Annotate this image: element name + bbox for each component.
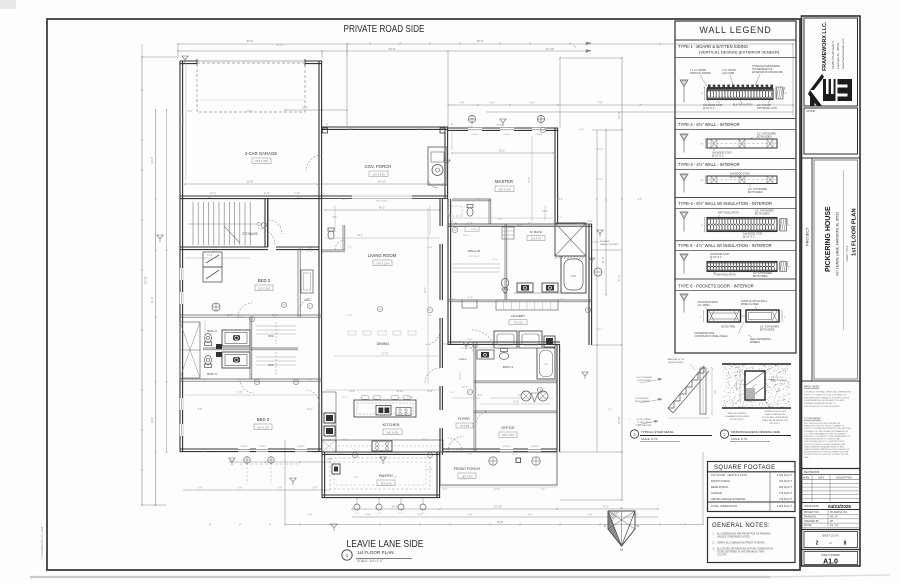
svg-text:BOTH SIDES: BOTH SIDES [760,329,775,332]
svg-text:SHOWER: SHOWER [600,241,610,243]
svg-text:ARCH. NOTE:: ARCH. NOTE: [804,386,820,389]
svg-text:W: W [637,524,640,528]
svg-text:30'-8": 30'-8" [150,157,154,164]
svg-text:34'-6": 34'-6" [388,47,395,51]
svg-text:16'-10": 16'-10" [597,179,604,181]
svg-text:ABOVE NOSING: ABOVE NOSING [668,361,684,364]
svg-text:GENERAL NOTES:: GENERAL NOTES: [712,523,770,529]
svg-text:10'-0": 10'-0" [427,247,433,249]
svg-text:11'-7": 11'-7" [257,199,263,201]
svg-text:A1.0: A1.0 [823,559,838,566]
svg-text:DEALS HEREBY RETAINED RIGHTS,: DEALS HEREBY RETAINED RIGHTS, ANY [804,445,845,448]
svg-text:7'-7": 7'-7" [348,247,353,249]
svg-text:SCREEN: SCREEN [258,446,266,448]
svg-text:1.: 1. [713,533,715,536]
svg-text:ABOVE GARAGE STORAGE: ABOVE GARAGE STORAGE [711,497,745,501]
svg-text:12'6 X 13'0: 12'6 X 13'0 [257,426,270,429]
svg-text:14'-0": 14'-0" [327,459,333,461]
svg-text:EGRESS: EGRESS [531,446,539,448]
svg-text:20'-10": 20'-10" [276,45,283,47]
svg-text:DRAWN BY: DRAWN BY [804,516,817,519]
svg-text:18'-4": 18'-4" [307,451,313,453]
svg-text:4'-6": 4'-6" [541,489,546,491]
svg-text:19'-1": 19'-1" [357,235,363,237]
svg-text:EGRESS: EGRESS [471,134,479,136]
svg-text:6'-8": 6'-8" [203,379,208,381]
svg-text:HANDRAIL 34"-38": HANDRAIL 34"-38" [667,358,684,361]
svg-text:3'-3": 3'-3" [273,317,278,319]
svg-text:2: 2 [724,433,726,437]
svg-text:TYPE-3 - 4½" WALL - INTERIOR: TYPE-3 - 4½" WALL - INTERIOR [678,162,740,167]
svg-text:BED 2: BED 2 [258,278,271,283]
svg-text:PANTRY: PANTRY [379,474,394,478]
svg-text:34'-6": 34'-6" [246,39,253,43]
svg-text:@ 16" O.C.: @ 16" O.C. [710,256,723,259]
svg-text:CONSENT OF THE OWNER OF FRAMEW: CONSENT OF THE OWNER OF FRAMEWORX [804,430,849,433]
svg-text:DIMENSIONS ARE BROUGHT TO: DIMENSIONS ARE BROUGHT TO [804,402,836,405]
svg-text:PICKERING 001: PICKERING 001 [830,512,848,514]
svg-text:20'-0": 20'-0" [227,315,233,317]
svg-text:211 SQ.F.T: 211 SQ.F.T [779,479,792,483]
svg-text:3'-8": 3'-8" [238,392,243,394]
svg-text:Fairhope AL, 36532: Fairhope AL, 36532 [836,42,840,69]
svg-text:3.: 3. [713,548,715,551]
svg-text:9'-1": 9'-1" [333,217,338,219]
svg-text:36'-2": 36'-2" [379,206,386,210]
svg-text:NON-EXCLUSIVE LICENSE GRANTED,: NON-EXCLUSIVE LICENSE GRANTED, AND [804,443,846,446]
svg-text:15'-7": 15'-7" [450,392,456,394]
svg-text:2-CAR GARAGE: 2-CAR GARAGE [245,151,278,156]
svg-text:12'-10": 12'-10" [617,416,621,424]
svg-text:2: 2 [816,541,819,547]
svg-text:ALL DOORS OR WINDOWS WITHOUT D: ALL DOORS OR WINDOWS WITHOUT DIMENSIONS [717,548,773,551]
svg-text:8'-5": 8'-5" [298,249,303,251]
svg-text:16'-6": 16'-6" [463,235,469,237]
svg-text:22'-10": 22'-10" [448,299,455,301]
svg-text:BATT INSULATION: BATT INSULATION [718,212,739,215]
svg-text:OR ALTERATION DISCREPANCY UNLE: OR ALTERATION DISCREPANCY UNLESS [804,399,845,402]
svg-text:SHALL BE INSTALLED PER: SHALL BE INSTALLED PER [762,419,788,422]
svg-text:23'-4": 23'-4" [424,287,427,293]
svg-text:779 SQ.F.T: 779 SQ.F.T [779,497,793,501]
svg-text:8'-10": 8'-10" [427,469,433,471]
svg-text:18'-0": 18'-0" [542,392,548,394]
svg-text:15'6 X 16'0: 15'6 X 16'0 [498,188,511,191]
svg-text:20'-8": 20'-8" [247,180,254,184]
svg-text:SCREEN: SCREEN [297,446,305,448]
svg-text:VERTICAL BOARD: VERTICAL BOARD [690,72,711,75]
svg-text:MARK: MARK [803,476,810,479]
svg-text:6'-0": 6'-0" [308,248,313,250]
svg-text:19'-6": 19'-6" [427,391,433,393]
svg-text:BOTH SIDES: BOTH SIDES [748,191,763,194]
svg-text:4'-6": 4'-6" [366,514,371,517]
svg-text:14'6 X 16'0: 14'6 X 16'0 [386,431,399,434]
svg-text:TYPE 6 - POCKETS DOOR - INTERI: TYPE 6 - POCKETS DOOR - INTERIOR [678,284,754,289]
svg-text:FRONT PORCH: FRONT PORCH [711,479,730,483]
svg-text:24'-1": 24'-1" [307,409,313,411]
svg-text:11'6 X 13'0: 11'6 X 13'0 [258,287,271,290]
svg-text:10'-8": 10'-8" [467,297,473,299]
svg-text:7'-6": 7'-6" [529,101,534,105]
svg-text:MINIMUM EGRESS OPENING SIZE: MINIMUM EGRESS OPENING SIZE [731,430,780,434]
svg-text:1ST FLOOR - HEAT'D & COOL: 1ST FLOOR - HEAT'D & COOL [711,473,748,477]
svg-text:9'-1": 9'-1" [243,379,248,381]
svg-text:21'-9": 21'-9" [347,315,353,317]
svg-text:2'-0": 2'-0" [354,477,359,479]
svg-text:4'-6": 4'-6" [443,489,448,491]
svg-text:16'-0": 16'-0" [528,177,531,183]
svg-text:4'-2": 4'-2" [428,315,433,317]
svg-text:PROJECT NO.: PROJECT NO. [804,512,820,514]
svg-text:AS - 1/4: AS - 1/4 [830,524,839,527]
svg-text:779 SQ.F.T: 779 SQ.F.T [779,491,793,495]
svg-text:© COPYRIGHT:: © COPYRIGHT: [804,418,821,421]
svg-text:EGRESS: EGRESS [503,134,511,136]
svg-text:7'-10": 7'-10" [294,192,300,195]
svg-text:TUB: TUB [571,275,576,278]
svg-text:UNAUTHORIZED REPRODUCTION, REU: UNAUTHORIZED REPRODUCTION, REUSE OR [804,448,850,451]
svg-text:PRIVATE ROAD SIDE: PRIVATE ROAD SIDE [344,24,425,35]
svg-text:11'-8": 11'-8" [297,197,303,199]
svg-text:7'-6": 7'-6" [489,101,494,105]
svg-text:12'-2": 12'-2" [407,397,413,399]
svg-text:8'-2": 8'-2" [343,199,348,201]
svg-text:CLEARANCES REQUIRED: CLEARANCES REQUIRED [725,415,750,418]
svg-text:BATH 2: BATH 2 [207,329,217,333]
svg-text:TYPE-2 - 6½" WALL - INTERIOR: TYPE-2 - 6½" WALL - INTERIOR [678,122,740,127]
svg-text:THAN 24" ABOVE FIN.: THAN 24" ABOVE FIN. [765,413,786,416]
svg-text:ASSUMES RESPONSIBILITY FOR ANY: ASSUMES RESPONSIBILITY FOR ANY WORKS [804,396,850,399]
svg-text:OFFICE: OFFICE [501,426,515,430]
svg-text:7'6 X 9'2: 7'6 X 9'2 [513,322,523,325]
svg-text:GARAGE: GARAGE [711,491,722,495]
svg-text:E: E [604,524,606,528]
svg-text:17'-1": 17'-1" [460,479,466,481]
svg-text:@ 16" O.C.: @ 16" O.C. [712,155,725,158]
svg-text:11'-3": 11'-3" [467,454,473,456]
svg-text:TUB: TUB [544,364,549,366]
svg-text:OCCUPY.: OCCUPY. [717,555,728,557]
svg-text:13'-4": 13'-4" [150,417,154,424]
svg-text:5'-8": 5'-8" [198,409,203,411]
svg-text:10'-4": 10'-4" [494,489,500,491]
svg-text:5'-6": 5'-6" [238,487,243,490]
svg-text:17'-10": 17'-10" [496,125,503,127]
svg-text:19'-6": 19'-6" [542,211,548,213]
svg-text:11" MIN DEPTH: 11" MIN DEPTH [637,422,652,424]
svg-text:3'-11": 3'-11" [422,439,428,441]
svg-text:COV. PORCH: COV. PORCH [365,164,392,169]
svg-text:7'-6": 7'-6" [597,101,602,105]
svg-text:IF WINDOW SILL LESS: IF WINDOW SILL LESS [764,411,786,413]
svg-text:FRONT PORCH: FRONT PORCH [454,467,481,471]
svg-text:M. BATH: M. BATH [530,230,542,234]
svg-text:13'-1": 13'-1" [492,259,498,261]
svg-text:13'-4": 13'-4" [467,223,473,225]
svg-text:SHEET NUMBER: SHEET NUMBER [821,554,840,557]
svg-text:4'-6": 4'-6" [528,514,533,517]
svg-text:EGRESS: EGRESS [535,134,543,136]
svg-text:SCALE: N.T.S.: SCALE: N.T.S. [731,437,748,441]
svg-text:REAR PORCH: REAR PORCH [711,485,728,489]
svg-text:9'-2": 9'-2" [528,223,533,225]
svg-text:@ 16" O.C.: @ 16" O.C. [743,236,756,239]
svg-text:11'6 X 23'4: 11'6 X 23'4 [372,173,385,176]
svg-text:EGRESS: EGRESS [503,446,511,448]
svg-text:SHEET COUNT: SHEET COUNT [822,535,840,538]
svg-text:7'10" X 6'4": 7'10" X 6'4" [468,256,479,258]
svg-text:EXTERIOR PLYWOOD/OSB: EXTERIOR PLYWOOD/OSB [752,71,783,74]
svg-text:IRC R312.2: IRC R312.2 [770,423,781,425]
svg-text:6'-4": 6'-4" [331,424,336,426]
svg-text:THE USE AND BUILT TO CONSTRUCT: THE USE AND BUILT TO CONSTRUCTION, [804,440,845,443]
svg-text:SCALE: 1/4"=1'-0": SCALE: 1/4"=1'-0" [357,559,383,563]
svg-text:27'-10": 27'-10" [546,47,555,51]
svg-text:ALL SIDES: ALL SIDES [698,304,710,307]
svg-text:17'-5": 17'-5" [307,251,313,253]
svg-text:12'-6": 12'-6" [307,379,313,381]
svg-text:18'0 X 8'0: 18'0 X 8'0 [462,475,474,478]
svg-text:37'-0": 37'-0" [617,275,621,282]
svg-text:MT: MT [830,521,834,523]
svg-text:BY IRC R310.1: BY IRC R310.1 [730,419,745,421]
svg-text:20'-10": 20'-10" [237,317,244,319]
svg-text:MODIFICATION OF THIS DOCUMENT: MODIFICATION OF THIS DOCUMENT WILL BE [804,451,849,454]
svg-text:TYPE-1 - BOARD & BATTEN SIDI: TYPE-1 - BOARD & BATTEN SIDING [678,44,748,49]
svg-text:MASTER: MASTER [495,179,513,184]
svg-text:LAG OVER: LAG OVER [722,72,734,75]
svg-text:REVISIONS: REVISIONS [804,470,819,474]
svg-text:(VERTICAL DESIGN) (EXTERIOR VE: (VERTICAL DESIGN) (EXTERIOR VENEER) [699,50,780,55]
svg-text:CONTRACTOR SHALL VERIFY ALL DI: CONTRACTOR SHALL VERIFY ALL DIMENSIONS [804,391,851,394]
svg-text:74'-11": 74'-11" [144,276,148,284]
svg-text:20'-9": 20'-9" [417,129,423,131]
svg-text:4'-6": 4'-6" [634,514,639,517]
svg-text:10'0 X 11'6: 10'0 X 11'6 [502,434,515,437]
svg-text:4'-6": 4'-6" [308,514,313,517]
svg-text:FLOOR, FALL PREVENTION: FLOOR, FALL PREVENTION [762,416,789,419]
svg-text:of: of [829,541,832,545]
svg-text:WIC: WIC [268,334,273,338]
svg-text:19'-2": 19'-2" [557,199,563,201]
svg-text:DESCRIPTION: DESCRIPTION [836,477,852,479]
svg-text:SHOES: SHOES [471,229,478,231]
svg-text:DATE: DATE [818,476,824,479]
svg-text:9'-9": 9'-9" [343,397,348,399]
svg-text:PICKERING HOUSE: PICKERING HOUSE [825,206,832,272]
svg-text:WALK-IN: WALK-IN [468,249,480,253]
svg-text:7'-6": 7'-6" [459,101,464,105]
svg-text:17'0 X 23'4: 17'0 X 23'4 [376,262,389,265]
svg-text:7-3/4" MAX RISE: 7-3/4" MAX RISE [636,424,652,427]
svg-text:WHEN CLOSED: WHEN CLOSED [741,303,759,306]
svg-text:FRAMEWORX LLC.: FRAMEWORX LLC. [822,21,828,71]
svg-text:FOYER: FOYER [458,417,470,421]
svg-text:WINDOW OPENING: WINDOW OPENING [728,413,747,415]
svg-text:SCREEN: SCREEN [240,446,248,448]
svg-text:1x8 RISER BD: 1x8 RISER BD [635,398,649,400]
svg-text:LLC. THE PURCHASE OF THIS DOCU: LLC. THE PURCHASE OF THIS DOCUMENT [804,432,847,435]
svg-text:19'-10": 19'-10" [494,505,503,509]
svg-text:BED 3: BED 3 [257,417,270,422]
svg-text:24'-8": 24'-8" [182,117,185,123]
svg-text:1st FLOOR PLAN: 1st FLOOR PLAN [852,208,858,256]
svg-text:STORAGE: STORAGE [242,232,258,236]
svg-text:24350 US-98 Suite 5: 24350 US-98 Suite 5 [831,41,835,69]
svg-text:www.frameworxllc.com: www.frameworxllc.com [841,38,845,69]
svg-text:2'-4": 2'-4" [558,217,563,219]
svg-text:4'-6": 4'-6" [518,395,523,397]
svg-text:20'-8": 20'-8" [391,505,398,509]
svg-text:4'-11": 4'-11" [264,192,270,195]
svg-text:24'-3": 24'-3" [577,223,583,225]
svg-text:11'8 X 3'6: 11'8 X 3'6 [460,371,462,381]
svg-text:14'-8": 14'-8" [512,454,518,456]
svg-text:LAUNDRY: LAUNDRY [511,314,525,318]
svg-text:5'-6": 5'-6" [278,487,283,490]
svg-text:LIVING ROOM: LIVING ROOM [368,253,397,258]
svg-text:04/23/2025: 04/23/2025 [828,504,851,509]
svg-text:PRIOR TO CONSTRUCTION. CONTRAC: PRIOR TO CONSTRUCTION. CONTRACTOR [804,393,847,396]
svg-text:5'-9": 5'-9" [208,197,213,199]
svg-text:5'-6": 5'-6" [313,487,318,490]
svg-text:FINISH GRADE: FINISH GRADE [635,400,650,403]
svg-text:14'-0": 14'-0" [212,251,218,253]
svg-text:21'-5": 21'-5" [467,339,473,341]
svg-text:KITCHEN: KITCHEN [383,423,400,427]
svg-text:(OPTIONAL/ GYP): (OPTIONAL/ GYP) [757,107,777,110]
svg-text:BOTH SIDES: BOTH SIDES [755,213,770,216]
svg-text:2x12 STRINGER: 2x12 STRINGER [636,377,652,379]
svg-text:44" MAX: 44" MAX [735,382,738,390]
svg-text:8'-0": 8'-0" [478,395,483,397]
svg-text:FOAM INSULATION: FOAM INSULATION [714,274,736,277]
svg-text:ALL DIMENSIONS ARE FROM FACE O: ALL DIMENSIONS ARE FROM FACE OF FRAMING [717,533,771,536]
svg-text:15'-11": 15'-11" [202,451,209,453]
svg-text:5'-9": 5'-9" [478,199,483,201]
svg-text:21'-10": 21'-10" [381,353,389,356]
svg-text:MA. JP: MA. JP [830,516,838,519]
svg-text:VERIFY ALL DIMENSIONS PRIOR TO: VERIFY ALL DIMENSIONS PRIOR TO WORK. [717,542,765,545]
svg-text:252 SQ.F.T: 252 SQ.F.T [779,485,793,489]
svg-text:MIN OPENING: MIN OPENING [771,380,785,382]
svg-text:21'-0": 21'-0" [601,257,605,264]
svg-text:CONTINUOUS STEEL ANGLE: CONTINUOUS STEEL ANGLE [695,335,728,338]
svg-text:23'-2": 23'-2" [247,111,253,113]
svg-text:2'-0": 2'-0" [355,513,359,515]
svg-text:S: S [621,506,623,510]
svg-text:19'-11": 19'-11" [517,225,524,227]
svg-text:11'6 X 9'0: 11'6 X 9'0 [531,238,542,241]
svg-text:TYPE 5 - 4½" WALL W/ INSULAT: TYPE 5 - 4½" WALL W/ INSULATION - INTERI… [678,243,772,248]
svg-text:3'-9": 3'-9" [468,127,473,129]
svg-text:2'-0": 2'-0" [421,513,425,515]
svg-text:3'-1": 3'-1" [498,219,503,221]
svg-text:PROJECT: PROJECT [805,227,810,246]
svg-text:9'-10": 9'-10" [513,402,519,404]
svg-text:TOTAL UNDER ROOF: TOTAL UNDER ROOF [711,504,738,508]
svg-text:5'-5": 5'-5" [393,477,398,479]
svg-text:BOTH SIDES: BOTH SIDES [757,136,772,139]
svg-text:4,062 SQ.F.T: 4,062 SQ.F.T [777,504,793,508]
svg-text:BOTH SIDES: BOTH SIDES [753,275,768,278]
svg-text:5'-3": 5'-3" [588,221,593,223]
svg-text:2'-0": 2'-0" [399,513,403,515]
svg-text:SCALE: N.T.S.: SCALE: N.T.S. [641,437,658,441]
svg-text:5'-9": 5'-9" [188,111,193,113]
svg-text:4'-10": 4'-10" [537,335,543,337]
svg-text:TYPICAL STAIR DETAIL: TYPICAL STAIR DETAIL [641,430,674,434]
svg-text:19'-3": 19'-3" [597,329,603,331]
svg-text:WOOD TRIM: WOOD TRIM [721,326,735,329]
svg-text:BLK INSULATION: BLK INSULATION [733,104,753,107]
svg-text:PROSECUTED TO THE FULL EXTENT: PROSECUTED TO THE FULL EXTENT OF THE [804,454,849,456]
svg-text:1st FLOOR PLAN: 1st FLOOR PLAN [357,550,394,555]
svg-text:MULL&SXO: MULL&SXO [377,201,388,203]
svg-text:76'-6": 76'-6" [476,39,483,43]
svg-text:7'0 X 9'8: 7'0 X 9'8 [460,425,470,428]
svg-text:9'-0": 9'-0" [444,344,449,346]
svg-text:2.: 2. [713,542,715,545]
svg-text:13'-9": 13'-9" [207,255,213,257]
svg-text:14'-10": 14'-10" [396,391,403,393]
svg-text:11'-10": 11'-10" [209,192,216,195]
svg-text:11'-4": 11'-4" [150,297,154,303]
svg-text:20'-6": 20'-6" [342,439,348,441]
svg-text:UNLESS OTHERWISE NOTED.: UNLESS OTHERWISE NOTED. [717,537,750,539]
svg-text:(3) PER STAIR: (3) PER STAIR [637,379,651,382]
svg-text:HALL: HALL [459,357,467,361]
svg-text:8: 8 [844,541,847,547]
svg-text:SCALE: SCALE [804,524,812,527]
svg-text:LEAVIE LANE SIDE: LEAVIE LANE SIDE [347,539,424,550]
svg-text:24'-10": 24'-10" [617,111,621,119]
svg-text:437 LEAVIE LANE, FAIRHOPE AL: 437 LEAVIE LANE, FAIRHOPE AL 36532 [836,212,840,276]
svg-text:WALL LEGEND: WALL LEGEND [699,25,771,35]
svg-text:NOTE: TREADS: NOTE: TREADS [637,418,652,421]
svg-text:CHECKED BY: CHECKED BY [804,521,819,523]
svg-text:23'4 X 23'4: 23'4 X 23'4 [255,159,268,163]
svg-text:LAW.: LAW. [804,456,809,459]
svg-text:SQUARE FOOTAGE: SQUARE FOOTAGE [714,465,776,471]
svg-text:HEAD & NOZZLES: HEAD & NOZZLES [600,243,619,246]
svg-text:2,041 SQ.F.T: 2,041 SQ.F.T [777,473,793,477]
svg-text:9'-2": 9'-2" [603,505,609,509]
svg-text:4'-6": 4'-6" [468,514,473,517]
svg-text:16'-10": 16'-10" [378,180,386,184]
svg-text:TYPE-4 - 6½" WALL W/ INSULAT: TYPE-4 - 6½" WALL W/ INSULATION - INTERI… [678,201,772,206]
svg-text:THE ATTENTION OF THE DESIGNER.: THE ATTENTION OF THE DESIGNER. [804,405,840,408]
svg-text:DINING: DINING [377,342,390,346]
svg-text:ISSUE DATE: ISSUE DATE [804,505,819,508]
svg-text:4'-6": 4'-6" [588,514,593,517]
svg-text:7'-3": 7'-3" [560,299,565,301]
svg-text:12'-2": 12'-2" [349,391,355,393]
svg-text:TO BE CENTERED IN THE OPENINGS: TO BE CENTERED IN THE OPENINGS THEY [717,552,765,554]
svg-text:15'-1": 15'-1" [497,345,503,347]
svg-text:@ 16" O.C.: @ 16" O.C. [703,107,716,110]
svg-text:WHEELS: WHEELS [750,341,761,344]
svg-text:20'-0": 20'-0" [347,129,353,131]
svg-text:5.7 SQ. FT.: 5.7 SQ. FT. [773,377,784,379]
svg-text:11'-6": 11'-6" [597,149,603,151]
svg-text:SHEET TITLE: SHEET TITLE [845,245,849,262]
svg-text:6'-8": 6'-8" [638,199,643,201]
svg-text:13'-5": 13'-5" [579,129,585,131]
svg-text:2'-0": 2'-0" [377,513,381,515]
svg-text:BATH 3: BATH 3 [207,372,217,376]
